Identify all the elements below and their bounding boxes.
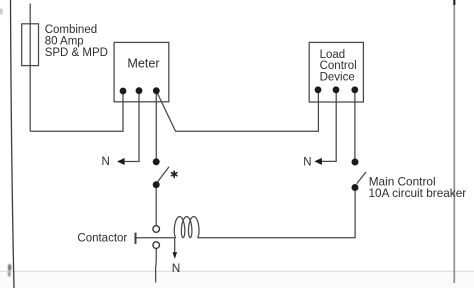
svg-text:Combined: Combined <box>45 24 97 36</box>
svg-text:80 Amp: 80 Amp <box>45 36 84 48</box>
breaker CB1 bottom terminal <box>352 184 359 191</box>
switch S1 bottom terminal <box>153 181 160 188</box>
contactor K1 armature tick <box>135 233 137 244</box>
neutral arrowhead right <box>314 158 322 165</box>
LCD terminal 1 <box>315 86 322 93</box>
switch S1 blade <box>158 167 170 182</box>
coil L1 <box>174 217 199 238</box>
neutral arrowhead bottom <box>173 252 178 259</box>
breaker CB1 blade <box>357 172 366 184</box>
wire: supply drop through SPD down to horizontal run <box>29 4 31 132</box>
svg-text:SPD & MPD: SPD & MPD <box>45 47 108 59</box>
svg-text:Device: Device <box>320 71 355 83</box>
svg-text:N: N <box>102 156 110 168</box>
edge smudge bottom-left <box>8 264 12 277</box>
switch S1 top terminal <box>153 158 160 165</box>
wire: meter terminal 3 diagonal to load control run <box>157 91 318 132</box>
wire: meter terminal 2 down to neutral arrow <box>124 91 139 162</box>
contactor K1 lower contact <box>153 242 160 249</box>
meter terminal 3 <box>153 87 160 94</box>
page right edge line <box>453 0 455 283</box>
page left border <box>11 0 15 288</box>
wire: contactor lower contact to panel <box>155 249 158 283</box>
wire: coil to breaker CB1 <box>198 191 356 238</box>
surge protector SPD1 body <box>22 24 39 66</box>
LCD terminal 3 <box>351 86 358 93</box>
wire: neutral drop below coil junction <box>174 238 176 253</box>
svg-text:10A circuit breaker: 10A circuit breaker <box>369 186 467 200</box>
contactor K1 upper contact <box>153 226 160 233</box>
svg-text:Contactor: Contactor <box>77 233 127 245</box>
wire: meter terminal 3 down to switch S1 <box>155 91 157 162</box>
wire: LCD terminal 3 down to breaker CB1 <box>354 90 356 162</box>
switch S1 asterisk marker <box>172 171 177 177</box>
svg-text:N: N <box>172 261 181 275</box>
meter terminal 1 <box>120 88 127 95</box>
meter terminal 2 <box>136 87 143 94</box>
breaker CB1 top terminal <box>352 159 359 166</box>
load control device U2 box <box>309 42 363 102</box>
wire: switch S1 to contactor contact <box>155 188 157 226</box>
wire: horizontal run to meter terminal 1 <box>30 91 123 131</box>
edge smudge top-left <box>0 9 3 15</box>
contactor K1 wire from armature tick <box>136 237 175 239</box>
neutral arrowhead left <box>117 158 125 165</box>
svg-text:Load: Load <box>320 49 346 61</box>
footer band <box>0 272 474 288</box>
svg-text:Meter: Meter <box>127 57 159 71</box>
meter U1 box <box>114 42 169 101</box>
svg-text:N: N <box>303 157 311 169</box>
wire: LCD terminal 2 down to neutral arrow <box>322 90 337 162</box>
LCD terminal 2 <box>333 86 340 93</box>
